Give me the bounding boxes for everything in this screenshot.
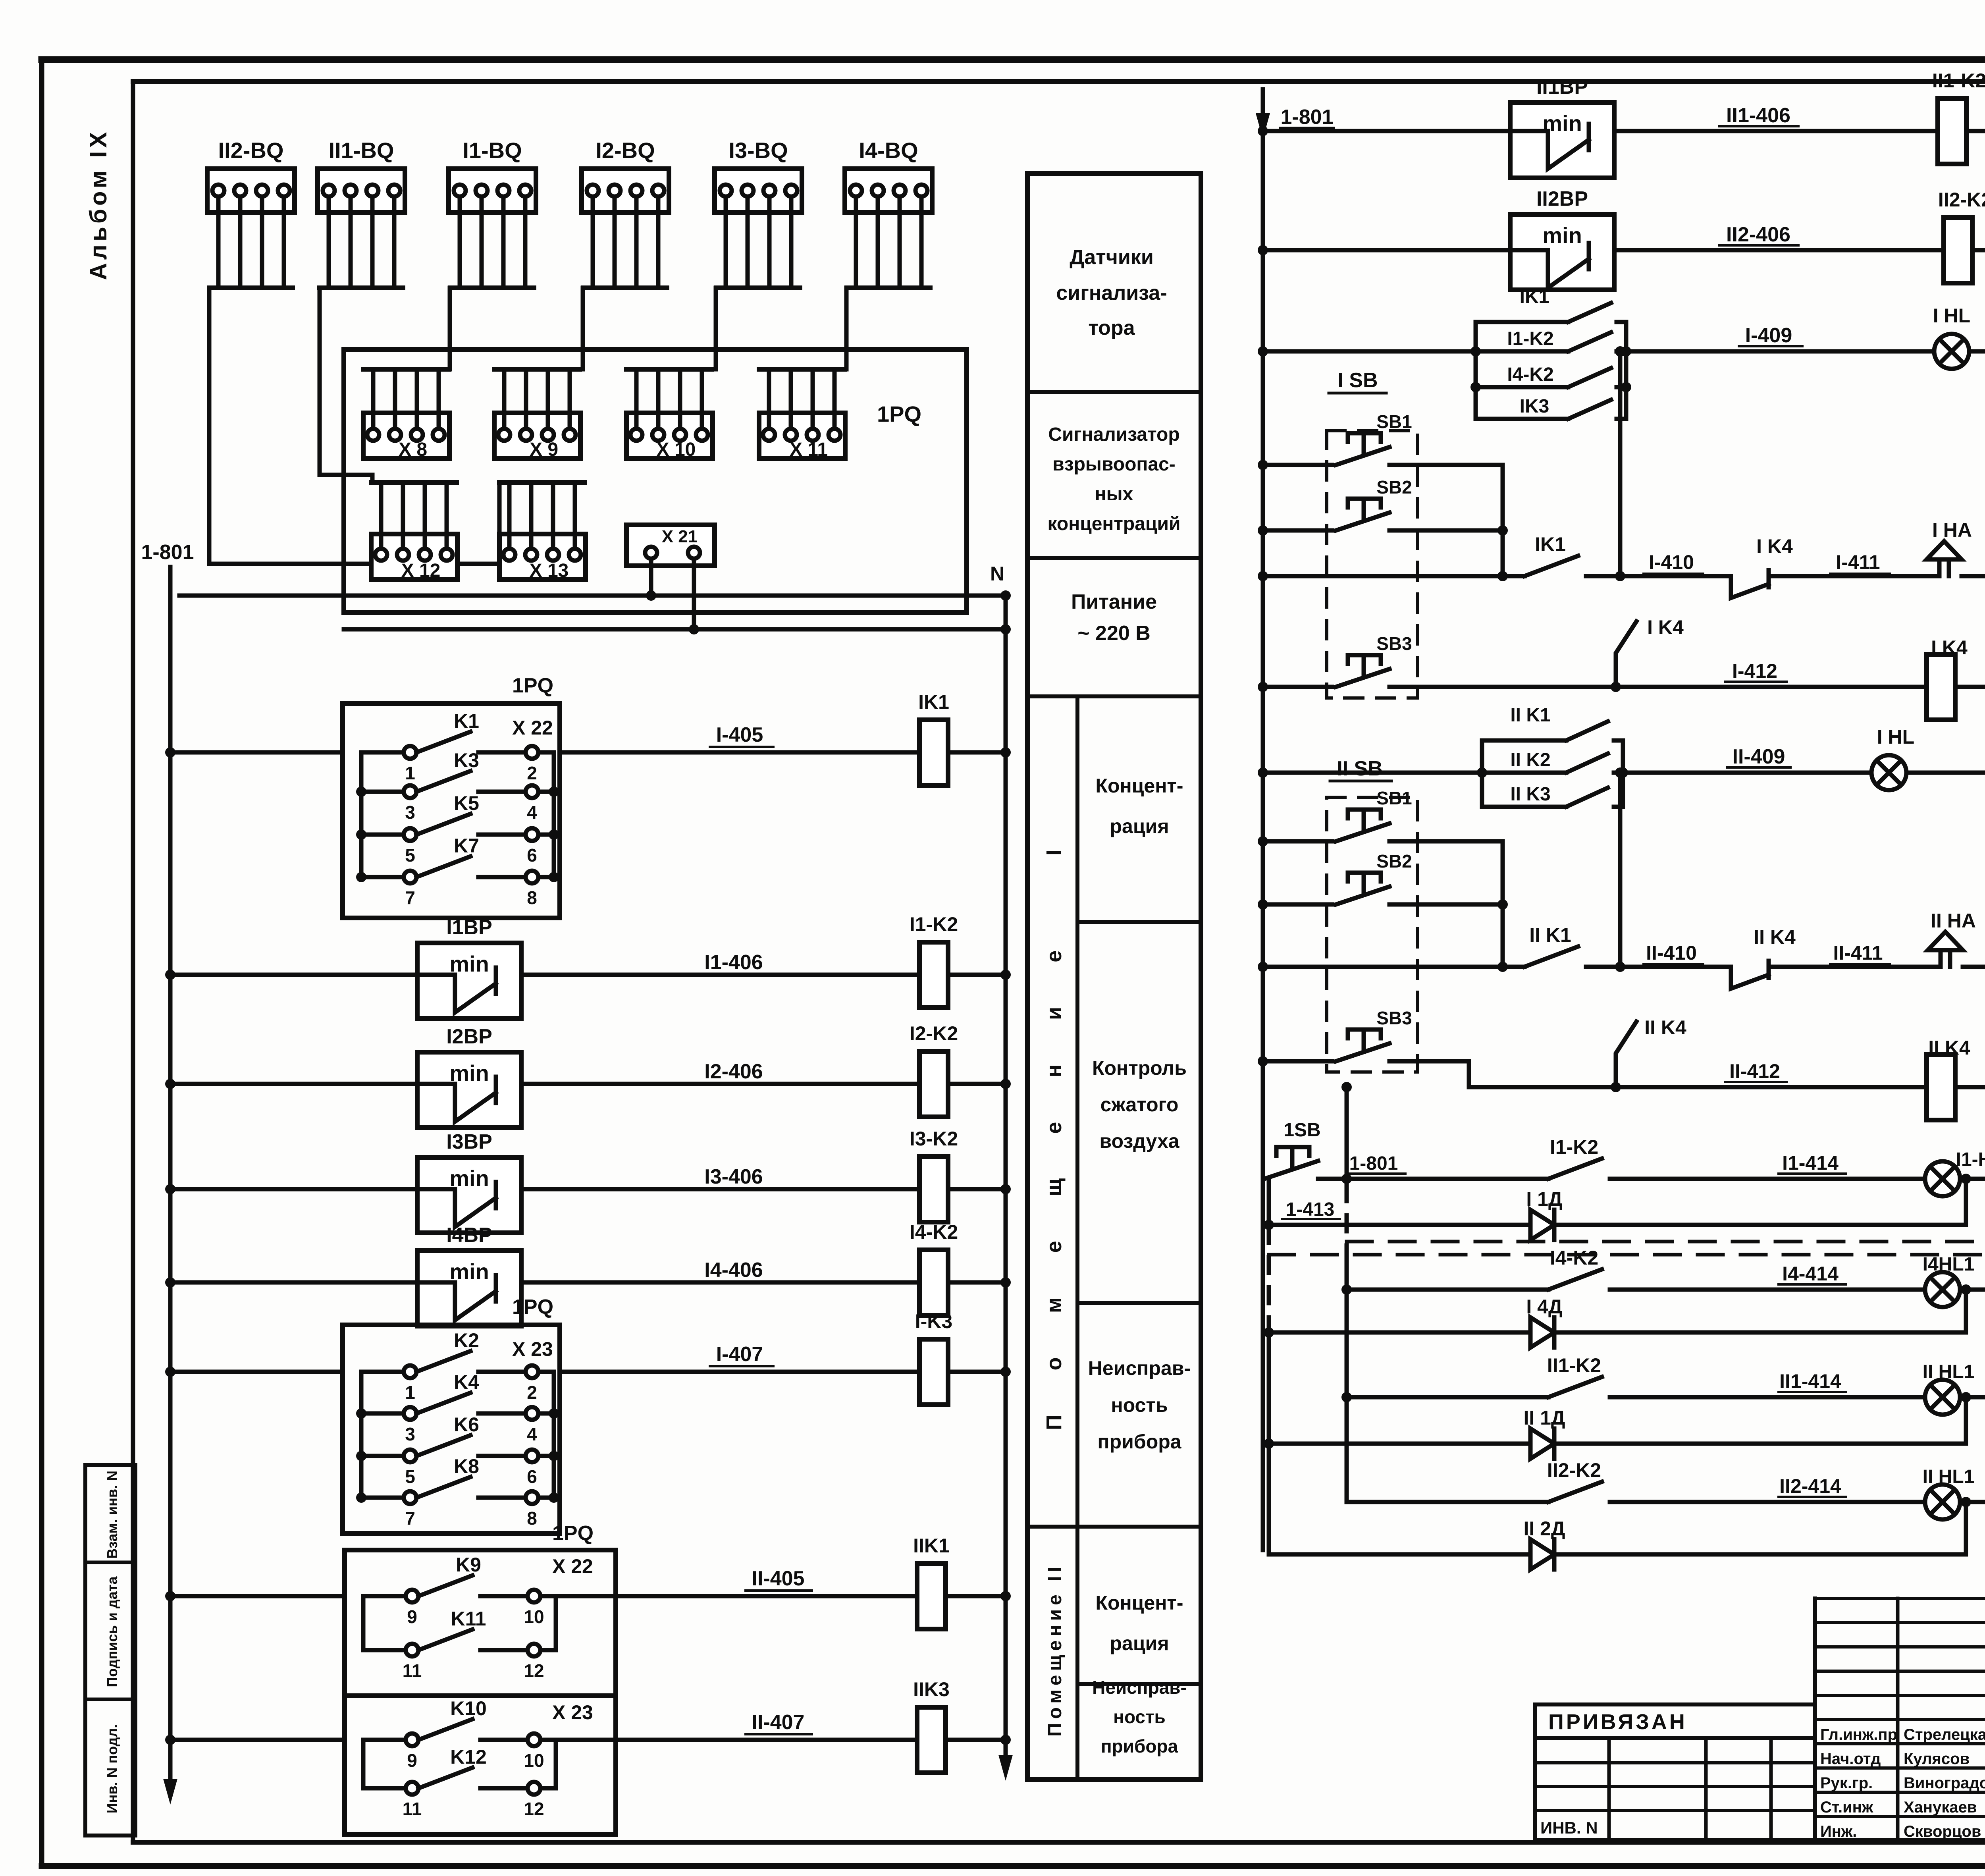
svg-text:1PQ: 1PQ [512,1296,553,1319]
wire IHA to N [1962,571,1985,581]
wire field bus lower [344,627,1006,632]
horn IHA [1927,519,1972,576]
svg-text:K2: K2 [454,1329,479,1352]
svg-text:I2-406: I2-406 [704,1060,763,1083]
connector II2-BQ [207,138,295,288]
wire IHL2 to N [1906,767,1985,778]
svg-text:I4-K2: I4-K2 [910,1221,958,1243]
svg-text:Взам. инв. N: Взам. инв. N [104,1471,120,1559]
svg-text:Нач.отд: Нач.отд [1820,1750,1881,1768]
relay coil I-K3 [915,1310,952,1405]
svg-text:min: min [1542,223,1582,248]
connector I3-BQ [715,138,802,288]
svg-text:X 9: X 9 [530,439,558,460]
svg-text:I2-K2: I2-K2 [910,1022,958,1045]
svg-text:Кулясов: Кулясов [1904,1750,1970,1768]
svg-text:II-409: II-409 [1733,745,1785,768]
wire 1-801 lower [1318,1153,1548,1179]
svg-text:I-409: I-409 [1745,324,1792,347]
svg-text:II1-414: II1-414 [1779,1370,1841,1392]
svg-text:I HA: I HA [1932,519,1972,541]
svg-text:I1-K2: I1-K2 [1550,1136,1598,1158]
svg-text:K12: K12 [450,1746,487,1768]
button group IISB frame [1327,757,1418,1072]
svg-text:8: 8 [527,887,537,908]
relay coil I2-K2 [910,1022,958,1117]
connector II1-BQ [318,138,405,288]
wire 1-413 diode row I1 [1269,1199,1530,1225]
svg-text:1-801: 1-801 [1281,106,1334,129]
svg-text:Контроль: Контроль [1092,1057,1187,1079]
svg-text:I4HL1: I4HL1 [1923,1254,1975,1275]
relay coil IIK4 [1927,1037,1970,1120]
svg-text:I HL: I HL [1877,726,1914,748]
svg-text:ность: ность [1113,1706,1166,1727]
lamp circuit II2 [1269,1459,1985,1569]
svg-text:SB2: SB2 [1376,477,1412,497]
wire II-410 [1644,942,1731,967]
terminal block X12 [371,482,457,581]
wire from bus to I3BP [165,1184,417,1194]
svg-text:X 11: X 11 [790,439,828,460]
svg-text:рация: рация [1110,1632,1169,1654]
svg-text:Ст.инж: Ст.инж [1820,1799,1873,1816]
wire row II2-406 left [1258,245,1510,255]
terminal block X9 [494,369,580,460]
svg-text:IIK3: IIK3 [913,1678,950,1701]
svg-text:K9: K9 [456,1554,481,1576]
pressure relay I1BP [417,916,521,1018]
connector I4-BQ [845,138,932,288]
svg-text:Сигнализатор: Сигнализатор [1048,424,1179,445]
svg-text:II1-BQ: II1-BQ [329,138,394,163]
svg-text:II HL1: II HL1 [1923,1361,1975,1382]
table text Датчики сигнализатора [1056,246,1167,339]
contact IK1 row4 [1524,533,1620,576]
wire II1-K2 to N [1966,126,1985,136]
wire II-411 [1783,942,1941,967]
svg-text:6: 6 [527,1466,537,1487]
svg-text:I4-414: I4-414 [1782,1263,1839,1285]
wire row II1-406 left [1258,126,1510,136]
svg-text:9: 9 [407,1606,417,1627]
table центральная колонка [1027,174,1201,1780]
svg-text:11: 11 [403,1660,422,1681]
svg-text:I2-BQ: I2-BQ [595,138,655,163]
connector I1-BQ [449,138,536,288]
svg-text:Помещение I: Помещение I [1042,805,1066,1431]
svg-text:концентраций: концентраций [1048,513,1181,534]
table text Концентрация II [1095,1592,1183,1654]
svg-text:тора: тора [1088,316,1135,339]
svg-text:I-405: I-405 [716,723,763,746]
svg-text:I1-K2: I1-K2 [910,913,958,935]
svg-text:2: 2 [527,763,537,783]
wire I2-BQ to X9 [581,288,585,369]
svg-text:5: 5 [405,1466,415,1487]
svg-text:II-410: II-410 [1646,942,1697,964]
wire IHL to N [1969,346,1985,357]
wire I4-406 [521,1259,919,1282]
svg-text:I3-K2: I3-K2 [910,1128,958,1150]
relay coil I3-K2 [910,1128,958,1222]
svg-text:I K4: I K4 [1931,636,1968,659]
svg-text:ность: ность [1111,1394,1168,1416]
wire I4-BQ to X11 [844,288,849,369]
table text Питание 220В [1071,590,1157,645]
terminal block X21 [626,525,715,566]
svg-text:K1: K1 [454,710,479,732]
svg-text:K8: K8 [454,1455,479,1477]
svg-text:Гл.инж.пр: Гл.инж.пр [1820,1726,1897,1743]
svg-text:II2BP: II2BP [1536,187,1588,210]
svg-text:II2-K2: II2-K2 [1938,189,1985,211]
svg-text:X 13: X 13 [530,560,569,581]
relay coil IIK1 [913,1535,950,1629]
svg-text:I4-BQ: I4-BQ [859,138,918,163]
svg-text:1SB: 1SB [1284,1120,1320,1141]
wire IIK1 to N [946,1591,1011,1601]
svg-text:X 12: X 12 [401,560,441,581]
contact block 1PQ X23 [343,1296,560,1533]
svg-text:II HA: II HA [1931,910,1976,932]
wire I-412 [1616,660,1927,687]
svg-text:II K4: II K4 [1644,1016,1686,1039]
svg-text:Альбом IX: Альбом IX [85,129,112,280]
contact IIK1 row8 [1524,924,1620,967]
bus matrix feed [1341,1082,1352,1502]
wire II-405 [165,1567,917,1601]
relay coil IK1 [918,691,949,785]
table text Неисправность I [1088,1357,1191,1453]
svg-text:I1-K2: I1-K2 [1507,328,1553,349]
contact group IK1 I1-K2 I4-K2 IK3 [1470,286,1631,419]
svg-text:X 8: X 8 [399,439,427,460]
svg-text:1PQ: 1PQ [552,1522,594,1545]
svg-text:II SB: II SB [1337,757,1383,780]
svg-text:I3-BQ: I3-BQ [728,138,788,163]
svg-text:K5: K5 [454,792,479,814]
wire II-409 [1623,745,1871,773]
svg-text:1: 1 [405,1382,415,1403]
wire X21 to N bus [646,559,656,601]
svg-text:Подпись и дата: Подпись и дата [104,1576,120,1687]
svg-text:I-K3: I-K3 [915,1310,952,1332]
svg-text:10: 10 [524,1606,544,1627]
svg-text:ИНВ. N: ИНВ. N [1540,1818,1598,1837]
wire I-K3 to N [948,1367,1011,1377]
lamp I1-HL1 [1925,1149,1985,1196]
svg-text:N: N [990,563,1004,585]
svg-text:X 22: X 22 [552,1555,593,1577]
wire diode I1 to junction [1554,1179,1966,1225]
diode I1D [1526,1188,1562,1240]
svg-text:I SB: I SB [1337,369,1378,392]
svg-text:I4-K2: I4-K2 [1550,1247,1598,1269]
wire I2-K2 to N [948,1079,1011,1089]
svg-text:Скворцов: Скворцов [1904,1823,1981,1840]
svg-text:I4BP: I4BP [446,1224,492,1247]
svg-text:K10: K10 [450,1697,487,1720]
svg-text:II K3: II K3 [1510,784,1550,805]
lamp IHL second [1871,726,1914,790]
svg-text:II-407: II-407 [752,1711,805,1734]
svg-text:I-412: I-412 [1732,660,1777,682]
wire I1-414 [1779,1152,1971,1184]
svg-text:IK1: IK1 [1520,286,1549,307]
svg-text:II HL1: II HL1 [1923,1466,1975,1487]
relay coil IIK3 [913,1678,950,1773]
album label [85,129,112,280]
svg-text:IK1: IK1 [918,691,949,713]
svg-text:II2-K2: II2-K2 [1547,1459,1601,1481]
svg-text:8: 8 [527,1508,537,1529]
wire IIK4 to N [1955,1082,1985,1092]
svg-text:I4-K2: I4-K2 [1507,364,1553,385]
node R8 [1615,767,1648,972]
svg-text:12: 12 [524,1660,544,1681]
svg-text:I1-414: I1-414 [1782,1152,1839,1174]
svg-text:Инв. N подл.: Инв. N подл. [104,1724,120,1814]
svg-text:7: 7 [405,887,415,908]
signature table frame [1815,1598,1985,1840]
svg-text:IIK1: IIK1 [913,1535,950,1557]
wire I1HL1 to N [1960,1174,1985,1184]
wire II2-BQ to X13 [209,288,499,564]
wire SB join drop I [1497,465,1508,581]
svg-text:X 22: X 22 [512,717,553,739]
svg-text:прибора: прибора [1101,1736,1178,1756]
svg-text:X 23: X 23 [512,1338,553,1360]
svg-text:II K2: II K2 [1510,750,1550,771]
svg-text:II1-406: II1-406 [1726,104,1790,127]
svg-text:взрывоопас-: взрывоопас- [1052,454,1176,475]
wire II1-BQ to X12 [320,288,372,482]
svg-text:1: 1 [405,763,415,783]
svg-text:4: 4 [527,802,537,823]
contact IK4 aux [1616,616,1684,687]
svg-text:1PQ: 1PQ [512,674,553,697]
button SB3 group II [1258,1008,1621,1092]
button SB1 group II [1258,788,1503,846]
svg-text:Концент-: Концент- [1095,775,1183,797]
wire I3-406 [521,1165,919,1189]
svg-text:K7: K7 [454,835,479,857]
wire I-409 [1626,324,1934,351]
pressure relay I4BP [417,1224,521,1326]
wire I3-K2 to N [948,1184,1011,1194]
button SB1 [1258,411,1503,470]
svg-text:10: 10 [524,1750,544,1771]
button SB2 group II [1258,851,1508,910]
svg-text:II2-414: II2-414 [1779,1475,1841,1497]
wire row R8 left [1258,962,1524,972]
button 1SB [1264,1120,1321,1179]
svg-text:X 23: X 23 [552,1701,593,1724]
svg-text:Виноградова: Виноградова [1904,1774,1985,1792]
contact IIK4 aux [1616,1016,1686,1087]
wire IK1 to N [948,747,1011,758]
svg-text:SB2: SB2 [1376,851,1412,871]
svg-text:ПРИВЯЗАН: ПРИВЯЗАН [1548,1710,1687,1734]
svg-text:II1-K2: II1-K2 [1547,1354,1601,1377]
terminal block X8 [363,369,449,460]
wire from bus to I4BP [165,1277,417,1288]
svg-text:Ханукаев: Ханукаев [1904,1799,1977,1816]
wire II2-406 [1614,223,1943,250]
signal device 1PQ outline [344,349,967,613]
bus matrix left vertical [1264,1180,1274,1554]
wire I1-K2 to N [948,970,1011,980]
signature names [1820,1726,1985,1840]
svg-text:9: 9 [407,1750,417,1771]
svg-text:ных: ных [1095,484,1133,505]
svg-text:II 2Д: II 2Д [1523,1517,1565,1540]
svg-text:II 1Д: II 1Д [1523,1407,1565,1429]
svg-text:4: 4 [527,1424,537,1444]
bus right phase 1-801 [1256,89,1334,1550]
svg-text:I 1Д: I 1Д [1526,1188,1562,1210]
wire from bus to I2BP [165,1079,417,1089]
dashed separator [1269,1242,1985,1255]
button SB3 [1258,633,1621,692]
pressure relay I2BP [417,1025,521,1128]
svg-text:12: 12 [524,1799,544,1819]
svg-text:II2-406: II2-406 [1726,223,1790,246]
svg-text:SB1: SB1 [1376,411,1412,432]
svg-text:SB3: SB3 [1376,633,1412,654]
pressure relay I3BP [417,1130,521,1233]
svg-text:2: 2 [527,1382,537,1403]
svg-text:11: 11 [403,1799,422,1819]
wire row R4 left [1258,571,1524,581]
svg-text:I2BP: I2BP [446,1025,492,1048]
svg-text:K6: K6 [454,1413,479,1436]
left margin stamp column [85,1465,135,1836]
wire SB join drop II [1497,841,1508,972]
svg-text:Неисправ-: Неисправ- [1092,1677,1187,1698]
relay coil II2-K2 [1938,189,1985,283]
svg-text:I K4: I K4 [1756,535,1793,557]
wire I-410 [1644,551,1731,576]
svg-text:K3: K3 [454,749,479,771]
svg-text:3: 3 [405,802,415,823]
svg-text:II K1: II K1 [1529,924,1571,946]
svg-text:I-410: I-410 [1649,551,1694,573]
svg-text:~ 220 В: ~ 220 В [1077,622,1151,645]
wire I4-K2 to N [948,1277,1011,1288]
wire I2-406 [521,1060,919,1084]
contact I1-K2 lamp row [1548,1136,1924,1179]
svg-text:6: 6 [527,845,537,866]
wire I3-BQ to X10 [714,288,718,369]
svg-text:I1-HL1: I1-HL1 [1956,1149,1985,1170]
contact IK4 break [1731,535,1793,598]
svg-text:IK1: IK1 [1535,533,1566,555]
svg-text:I 4Д: I 4Д [1526,1296,1562,1318]
contact block 1PQ X22 [343,674,560,918]
wire field bus upper [179,594,1006,598]
svg-text:I3BP: I3BP [446,1130,492,1153]
svg-text:сжатого: сжатого [1100,1093,1179,1116]
svg-text:I-411: I-411 [1836,551,1880,573]
wire II1-406 [1614,104,1937,131]
svg-text:Рук.гр.: Рук.гр. [1820,1774,1873,1792]
wire II-412 [1616,1060,1927,1087]
svg-text:Помещение II: Помещение II [1045,1563,1066,1737]
svg-text:II2-BQ: II2-BQ [218,138,284,163]
svg-text:Стрелецкая: Стрелецкая [1904,1726,1985,1743]
contact block 1PQ X23 lower [345,1696,616,1834]
wire II2-K2 to N [1972,245,1985,255]
svg-text:I4-406: I4-406 [704,1259,763,1282]
table text Сигнализатор [1048,424,1181,534]
wire X21 right stub [689,559,699,634]
svg-text:Концент-: Концент- [1095,1592,1183,1614]
node R4 [1615,346,1648,581]
relay coil I1-K2 [910,913,958,1008]
button SB2 [1258,477,1508,536]
svg-text:Датчики: Датчики [1070,246,1154,269]
terminal block X11 [759,369,845,460]
svg-text:7: 7 [405,1508,415,1529]
svg-text:прибора: прибора [1097,1431,1181,1453]
wire IK4 to N [1955,682,1985,692]
svg-text:рация: рация [1110,815,1169,837]
contact block 1PQ X22 lower [345,1522,616,1696]
wire IIHA to N [1963,962,1985,972]
bus 1-801 left [141,541,194,1805]
svg-text:X 10: X 10 [657,439,696,460]
relay coil IK4 [1927,636,1968,720]
wire I-411 [1783,551,1939,576]
svg-text:Неисправ-: Неисправ- [1088,1357,1191,1379]
svg-text:II K1: II K1 [1510,705,1550,726]
horn IIHA [1928,910,1976,967]
svg-text:X 21: X 21 [662,527,698,546]
button group ISB frame [1327,369,1418,698]
svg-text:5: 5 [405,845,415,866]
table text Неисправность II [1092,1677,1187,1756]
table text Помещение I [1042,805,1066,1431]
svg-text:воздуха: воздуха [1099,1130,1179,1152]
terminal block X10 [626,369,713,460]
relay coil II1-K2 [1932,69,1985,164]
lamp circuit I4 [1269,1247,1985,1348]
svg-text:K4: K4 [454,1371,479,1393]
svg-text:SB1: SB1 [1376,788,1412,808]
wire II-407 [165,1711,917,1745]
svg-text:I K4: I K4 [1647,616,1684,638]
svg-text:I-407: I-407 [716,1343,763,1366]
svg-text:II K4: II K4 [1928,1037,1970,1059]
bus N left [990,563,1013,1781]
wire I-405 [165,723,919,758]
wire I1-BQ to X8 [448,288,452,369]
svg-text:Питание: Питание [1071,590,1157,613]
svg-text:Инж.: Инж. [1820,1823,1857,1840]
svg-text:K11: K11 [451,1608,486,1630]
svg-text:I3-406: I3-406 [704,1165,763,1188]
wire I1-406 [521,951,919,975]
table text Концентрация I [1095,775,1183,837]
svg-text:сигнализа-: сигнализа- [1056,281,1167,305]
svg-text:1-801: 1-801 [1349,1153,1398,1174]
relay coil I4-K2 [910,1221,958,1315]
lamp IHL [1933,305,1970,369]
svg-text:1-413: 1-413 [1286,1199,1335,1220]
wire from bus to I1BP [165,970,417,980]
